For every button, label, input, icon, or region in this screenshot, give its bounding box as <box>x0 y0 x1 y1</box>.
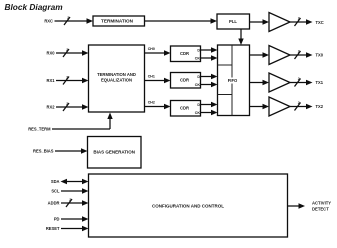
svg-text:RXC: RXC <box>44 19 53 24</box>
svg-text:DETECT: DETECT <box>312 207 329 212</box>
svg-text:RX0: RX0 <box>47 51 56 56</box>
svg-text:2: 2 <box>69 198 71 202</box>
svg-text:2: 2 <box>66 76 68 80</box>
svg-text:2: 2 <box>298 77 300 81</box>
svg-text:RX2: RX2 <box>47 105 56 110</box>
svg-text:CK: CK <box>195 111 201 115</box>
svg-text:ACTIVITY: ACTIVITY <box>312 201 331 206</box>
svg-text:2: 2 <box>66 48 68 52</box>
svg-text:FIFO: FIFO <box>228 78 238 83</box>
svg-text:Block Diagram: Block Diagram <box>5 2 64 12</box>
svg-text:CONFIGURATION AND CONTROL: CONFIGURATION AND CONTROL <box>152 204 224 209</box>
svg-text:PLL: PLL <box>229 19 237 24</box>
svg-text:SDA: SDA <box>51 179 60 184</box>
svg-text:TX2: TX2 <box>316 104 324 109</box>
svg-text:TERMINATION: TERMINATION <box>101 19 134 24</box>
svg-text:CK: CK <box>195 83 201 87</box>
svg-text:EQUALIZATION: EQUALIZATION <box>101 78 132 83</box>
svg-text:TXC: TXC <box>316 20 324 25</box>
svg-text:RES_BIAS: RES_BIAS <box>33 149 54 154</box>
svg-text:CH0: CH0 <box>148 47 155 51</box>
svg-text:SCL: SCL <box>51 189 60 194</box>
svg-text:TX1: TX1 <box>316 80 324 85</box>
svg-text:D: D <box>197 75 200 79</box>
svg-text:BIAS GENERATION: BIAS GENERATION <box>93 150 135 155</box>
svg-text:TERMINATION AND: TERMINATION AND <box>97 72 136 77</box>
svg-text:TX0: TX0 <box>316 53 324 58</box>
svg-text:2: 2 <box>298 50 300 54</box>
svg-text:2: 2 <box>298 17 300 21</box>
svg-text:CH1: CH1 <box>148 75 155 79</box>
svg-text:2: 2 <box>298 101 300 105</box>
svg-text:CDR: CDR <box>180 51 189 56</box>
svg-text:D: D <box>197 103 200 107</box>
svg-text:RES_TERM: RES_TERM <box>28 127 51 132</box>
svg-text:CDR: CDR <box>180 78 189 83</box>
svg-text:RESET: RESET <box>46 226 60 231</box>
svg-text:ADDR: ADDR <box>48 201 60 206</box>
svg-text:2: 2 <box>67 16 69 20</box>
svg-text:CK: CK <box>195 56 201 60</box>
svg-text:RX1: RX1 <box>47 78 56 83</box>
svg-text:2: 2 <box>66 102 68 106</box>
svg-text:CH2: CH2 <box>148 101 155 105</box>
svg-text:CDR: CDR <box>180 106 189 111</box>
svg-text:PD: PD <box>54 217 60 222</box>
svg-text:D: D <box>197 48 200 52</box>
